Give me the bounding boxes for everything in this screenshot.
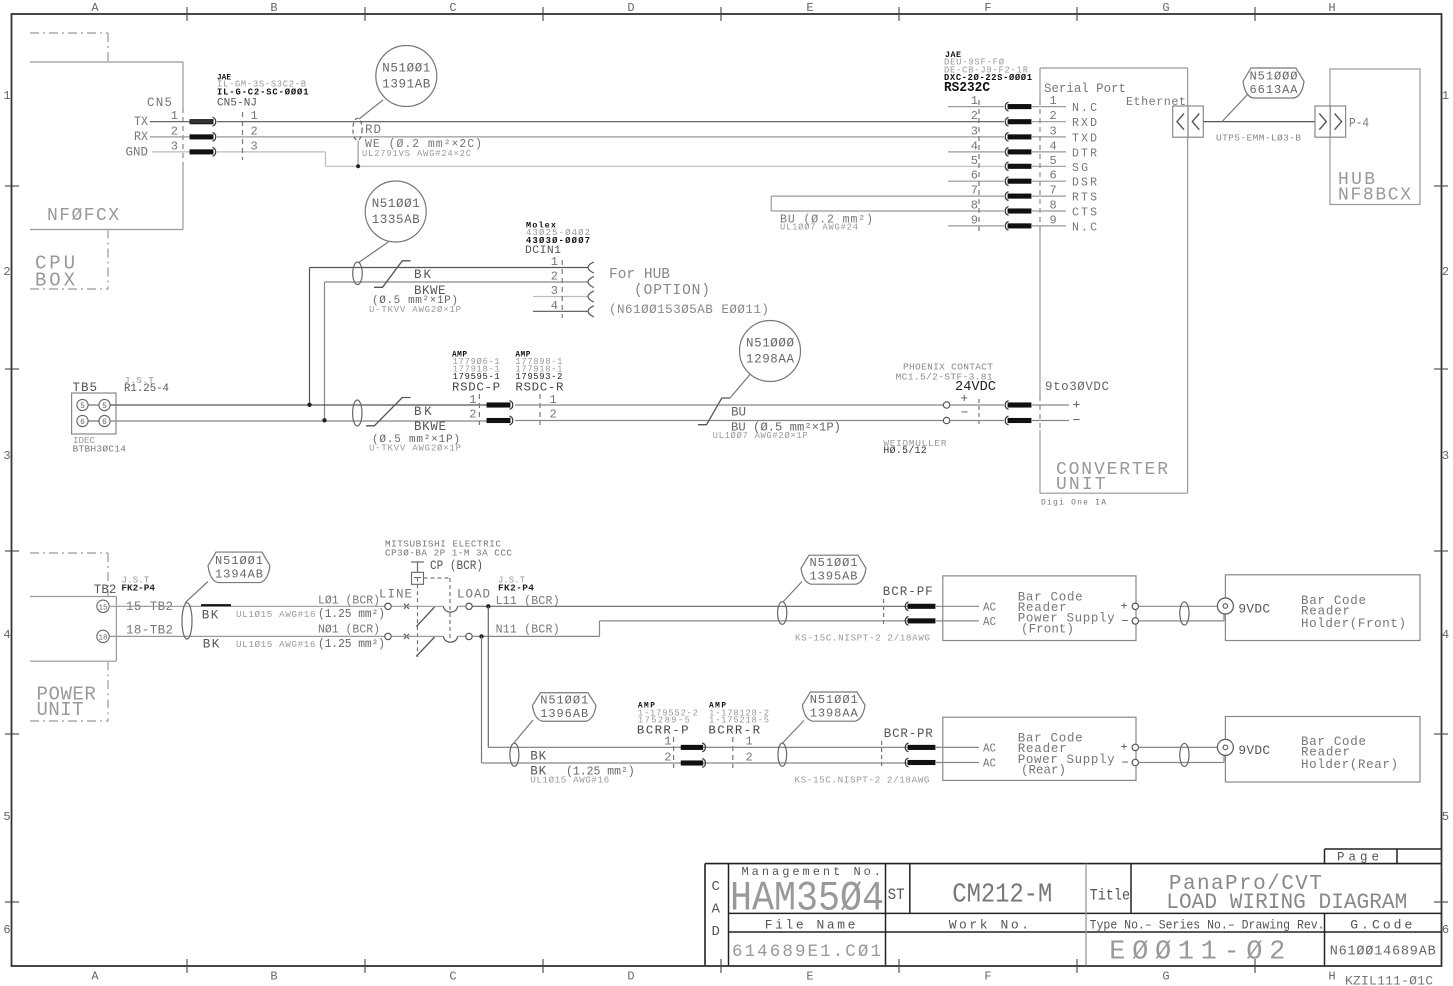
- svg-text:GND: GND: [126, 146, 149, 160]
- svg-text:LOAD WIRING DIAGRAM: LOAD WIRING DIAGRAM: [1166, 890, 1407, 915]
- svg-text:(Front): (Front): [1021, 623, 1074, 637]
- svg-text:N51ØØØ: N51ØØØ: [746, 337, 794, 351]
- svg-text:BK: BK: [203, 638, 220, 652]
- svg-text:3: 3: [3, 449, 10, 463]
- svg-text:E: E: [806, 1, 813, 15]
- svg-text:A: A: [91, 970, 99, 984]
- svg-text:N61ØØ14689AB: N61ØØ14689AB: [1330, 945, 1436, 960]
- svg-text:3: 3: [1050, 124, 1057, 138]
- svg-text:BOX: BOX: [35, 270, 76, 292]
- svg-text:9VDC: 9VDC: [1238, 743, 1270, 758]
- svg-text:N11 (BCR): N11 (BCR): [496, 624, 560, 637]
- svg-text:G: G: [1162, 970, 1169, 984]
- svg-text:CTS: CTS: [1072, 207, 1097, 220]
- svg-text:A: A: [91, 1, 99, 15]
- svg-text:N51ØØ1: N51ØØ1: [372, 197, 420, 211]
- svg-text:9to3ØVDC: 9to3ØVDC: [1045, 380, 1109, 394]
- svg-text:RXD: RXD: [1072, 117, 1097, 130]
- svg-text:Holder(Rear): Holder(Rear): [1301, 758, 1398, 772]
- svg-text:+: +: [961, 392, 969, 406]
- svg-text:ST: ST: [888, 886, 905, 904]
- svg-text:5: 5: [971, 154, 978, 168]
- svg-text:1: 1: [971, 94, 978, 108]
- svg-text:N.C: N.C: [1072, 102, 1097, 115]
- svg-text:G: G: [1162, 1, 1169, 15]
- svg-text:LØ1 (BCR): LØ1 (BCR): [318, 595, 380, 608]
- svg-text:2: 2: [550, 408, 557, 422]
- svg-text:RTS: RTS: [1072, 192, 1097, 205]
- svg-text:BK: BK: [202, 608, 219, 622]
- svg-text:N51ØØ1: N51ØØ1: [382, 62, 430, 76]
- svg-text:UL2791VS AWG#24×2C: UL2791VS AWG#24×2C: [362, 149, 471, 159]
- svg-text:D: D: [712, 924, 720, 940]
- svg-text:CP (BCR): CP (BCR): [430, 559, 483, 573]
- svg-text:2: 2: [469, 408, 476, 422]
- svg-text:For HUB: For HUB: [609, 267, 670, 283]
- svg-text:Serial Port: Serial Port: [1044, 82, 1126, 96]
- svg-text:+: +: [1121, 600, 1128, 614]
- svg-text:18-TB2: 18-TB2: [126, 624, 173, 638]
- svg-text:UL1Ø15 AWG#16: UL1Ø15 AWG#16: [530, 775, 609, 786]
- svg-text:BU: BU: [731, 406, 746, 420]
- svg-text:−: −: [1122, 615, 1129, 629]
- svg-text:IL-G-C2-SC-ØØØ1: IL-G-C2-SC-ØØØ1: [217, 87, 309, 97]
- svg-text:(1.25 mm²): (1.25 mm²): [318, 638, 385, 651]
- svg-text:AC: AC: [983, 601, 996, 614]
- svg-text:C: C: [449, 970, 456, 984]
- svg-text:N.C: N.C: [1072, 221, 1097, 234]
- svg-text:3: 3: [551, 284, 558, 298]
- svg-text:1: 1: [1050, 94, 1057, 108]
- svg-text:2: 2: [664, 750, 671, 764]
- svg-text:1: 1: [3, 89, 10, 103]
- svg-text:2: 2: [3, 265, 10, 279]
- svg-text:DTR: DTR: [1072, 147, 1097, 160]
- svg-text:−: −: [961, 406, 969, 420]
- svg-text:H: H: [1328, 970, 1335, 984]
- svg-text:5: 5: [1050, 154, 1057, 168]
- svg-text:8: 8: [971, 199, 978, 213]
- svg-text:NØ1 (BCR): NØ1 (BCR): [318, 624, 380, 637]
- svg-text:H: H: [1328, 1, 1335, 15]
- svg-text:B: B: [270, 1, 277, 15]
- svg-text:N51ØØ1: N51ØØ1: [810, 556, 858, 570]
- svg-text:D: D: [627, 970, 634, 984]
- svg-text:HØ.5/12: HØ.5/12: [883, 445, 926, 456]
- svg-text:2: 2: [551, 270, 558, 284]
- svg-text:1298AA: 1298AA: [746, 353, 794, 367]
- svg-text:4: 4: [971, 139, 978, 153]
- svg-text:1398AA: 1398AA: [810, 707, 859, 721]
- svg-text:−: −: [1122, 756, 1129, 770]
- svg-text:D: D: [627, 1, 634, 15]
- svg-text:N51ØØ1: N51ØØ1: [215, 554, 263, 568]
- svg-text:AC: AC: [983, 616, 996, 629]
- svg-text:BK: BK: [414, 268, 431, 282]
- svg-text:File Name: File Name: [765, 917, 856, 932]
- svg-text:CN5-NJ: CN5-NJ: [217, 98, 257, 110]
- svg-text:TB2: TB2: [94, 583, 117, 597]
- svg-text:C: C: [712, 879, 720, 895]
- svg-text:6: 6: [1442, 923, 1449, 937]
- svg-text:2: 2: [1442, 265, 1449, 279]
- svg-text:1391AB: 1391AB: [382, 78, 430, 92]
- svg-text:+: +: [1073, 398, 1081, 413]
- svg-text:R1.25-4: R1.25-4: [124, 383, 169, 395]
- svg-text:FK2-P4: FK2-P4: [498, 583, 534, 594]
- svg-text:9: 9: [971, 213, 978, 227]
- svg-text:RX: RX: [134, 130, 148, 144]
- svg-text:4: 4: [1050, 139, 1057, 153]
- svg-text:3: 3: [971, 124, 978, 138]
- svg-text:2: 2: [971, 109, 978, 123]
- svg-text:6: 6: [971, 169, 978, 183]
- svg-text:(OPTION): (OPTION): [634, 283, 710, 299]
- svg-text:(1.25 mm²): (1.25 mm²): [318, 608, 385, 621]
- svg-text:1: 1: [469, 393, 476, 407]
- svg-text:B: B: [270, 970, 277, 984]
- svg-text:FK2-P4: FK2-P4: [121, 582, 155, 593]
- svg-text:6: 6: [1050, 169, 1057, 183]
- svg-text:15-TB2: 15-TB2: [126, 600, 173, 614]
- svg-text:A: A: [712, 902, 721, 918]
- svg-text:UL1ØØ7 AWG#24: UL1ØØ7 AWG#24: [780, 222, 858, 232]
- svg-text:1: 1: [664, 735, 671, 749]
- svg-text:AC: AC: [983, 743, 996, 756]
- svg-text:N51ØØ1: N51ØØ1: [810, 693, 858, 707]
- svg-text:−: −: [1073, 413, 1081, 428]
- svg-text:BCR-PR: BCR-PR: [884, 727, 933, 741]
- svg-text:UL1Ø15 AWG#16: UL1Ø15 AWG#16: [236, 609, 316, 620]
- svg-text:UNIT: UNIT: [1056, 475, 1106, 495]
- svg-text:KS-15C.NISPT-2 2/18AWG: KS-15C.NISPT-2 2/18AWG: [795, 775, 930, 786]
- svg-text:18: 18: [98, 634, 107, 642]
- svg-text:6613AA: 6613AA: [1250, 83, 1299, 97]
- svg-text:UL1Ø15 AWG#16: UL1Ø15 AWG#16: [236, 639, 316, 650]
- svg-text:15: 15: [98, 604, 108, 612]
- svg-text:F: F: [984, 970, 991, 984]
- svg-text:4: 4: [1442, 628, 1449, 642]
- svg-text:1: 1: [551, 255, 558, 269]
- svg-text:6: 6: [80, 418, 85, 427]
- svg-text:1335AB: 1335AB: [372, 213, 420, 227]
- svg-text:9VDC: 9VDC: [1238, 602, 1270, 617]
- svg-text:1: 1: [1442, 89, 1449, 103]
- svg-text:2: 2: [746, 750, 753, 764]
- svg-text:P-4: P-4: [1349, 117, 1369, 131]
- svg-text:LINE: LINE: [379, 588, 412, 602]
- svg-text:Type No.– Series No.– Drawing: Type No.– Series No.– Drawing Rev.: [1090, 918, 1325, 932]
- svg-text:BK: BK: [530, 750, 546, 764]
- svg-text:CN5: CN5: [147, 96, 172, 110]
- svg-text:(Rear): (Rear): [1021, 764, 1066, 778]
- svg-text:HAM35Ø4: HAM35Ø4: [730, 875, 884, 923]
- svg-text:CP3Ø-BA 2P 1-M 3A CCC: CP3Ø-BA 2P 1-M 3A CCC: [385, 548, 512, 559]
- svg-text:BCR-PF: BCR-PF: [883, 585, 933, 599]
- svg-text:Title: Title: [1090, 887, 1131, 905]
- svg-text:7: 7: [971, 184, 978, 198]
- svg-text:U-TKVV AWG2Ø×1P: U-TKVV AWG2Ø×1P: [369, 444, 461, 454]
- svg-text:N51ØØØ: N51ØØØ: [1250, 70, 1298, 84]
- svg-text:Holder(Front): Holder(Front): [1301, 617, 1406, 631]
- svg-text:2: 2: [1050, 109, 1057, 123]
- svg-text:RD: RD: [365, 123, 381, 137]
- svg-text:8: 8: [1050, 199, 1057, 213]
- svg-text:F: F: [984, 1, 991, 15]
- svg-text:1396AB: 1396AB: [540, 707, 588, 721]
- svg-text:E: E: [806, 970, 813, 984]
- svg-text:5: 5: [3, 810, 10, 824]
- svg-text:6: 6: [102, 418, 107, 427]
- svg-text:DSR: DSR: [1072, 177, 1097, 190]
- svg-text:RS232C: RS232C: [944, 81, 990, 96]
- svg-text:4: 4: [551, 299, 558, 313]
- svg-text:BKWE: BKWE: [414, 420, 446, 434]
- svg-text:1395AB: 1395AB: [810, 570, 858, 584]
- svg-text:BTBH3ØC14: BTBH3ØC14: [73, 443, 127, 454]
- svg-text:1: 1: [746, 735, 753, 749]
- svg-text:CM212-M: CM212-M: [952, 881, 1052, 911]
- svg-text:4: 4: [3, 628, 10, 642]
- svg-text:TXD: TXD: [1072, 132, 1097, 145]
- svg-text:UTP5-EMM-LØ3-B: UTP5-EMM-LØ3-B: [1216, 133, 1301, 144]
- svg-text:AC: AC: [983, 758, 996, 771]
- svg-text:6: 6: [3, 923, 10, 937]
- svg-text:5: 5: [1442, 810, 1449, 824]
- svg-text:UNIT: UNIT: [37, 699, 84, 721]
- svg-text:LOAD: LOAD: [457, 588, 490, 602]
- svg-text:TX: TX: [134, 115, 148, 129]
- svg-text:KZIL111-Ø1C: KZIL111-Ø1C: [1345, 974, 1433, 986]
- svg-text:9: 9: [1050, 213, 1057, 227]
- svg-text:7: 7: [1050, 184, 1057, 198]
- svg-text:C: C: [449, 1, 456, 15]
- svg-text:5: 5: [80, 402, 85, 411]
- svg-text:+: +: [1121, 741, 1128, 755]
- svg-text:3: 3: [1442, 449, 1449, 463]
- svg-text:N51ØØ1: N51ØØ1: [540, 694, 588, 708]
- svg-text:UL1ØØ7 AWG#2Ø×1P: UL1ØØ7 AWG#2Ø×1P: [713, 431, 808, 441]
- svg-text:Digi One IA: Digi One IA: [1041, 498, 1106, 507]
- svg-text:5: 5: [102, 402, 107, 411]
- svg-text:(N61ØØ153Ø5AB EØØ11): (N61ØØ153Ø5AB EØØ11): [609, 303, 769, 317]
- svg-text:1394AB: 1394AB: [215, 567, 263, 581]
- svg-text:U-TKVV AWG2Ø×1P: U-TKVV AWG2Ø×1P: [369, 305, 461, 315]
- svg-text:KS-15C.NISPT-2 2/18AWG: KS-15C.NISPT-2 2/18AWG: [795, 632, 930, 643]
